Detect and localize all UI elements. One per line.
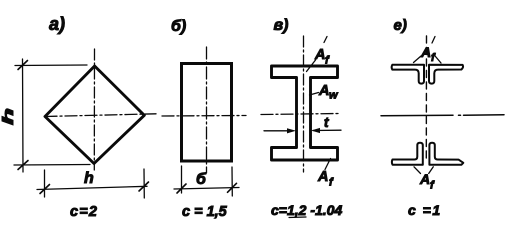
dimension h horizontal: left extension xyxy=(44,170,46,197)
svg-text:c=1,2 -1.04: c=1,2 -1.04 xyxy=(271,202,342,218)
svg-text:f: f xyxy=(329,177,334,189)
svg-text:б): б) xyxy=(171,18,186,35)
svg-text:w: w xyxy=(329,90,339,102)
vertical dashed centerline е xyxy=(425,36,427,158)
label Af bottom: leader xyxy=(325,159,331,170)
label Af bottom: text xyxy=(317,169,334,189)
svg-text:A: A xyxy=(318,83,329,99)
svg-text:c=2: c=2 xyxy=(70,204,98,220)
caption underline under 1,2 xyxy=(289,216,306,219)
dimension h horizontal: right tick xyxy=(139,182,149,191)
label Af top: leader xyxy=(307,60,316,72)
svg-text:в): в) xyxy=(274,17,289,34)
dimension б: right tick xyxy=(228,183,237,192)
rectangle section б xyxy=(182,64,232,162)
svg-text:f: f xyxy=(430,180,435,192)
dimension б: left extension xyxy=(181,166,183,193)
t dimension: right arrow line xyxy=(313,129,341,131)
t dimension: left arrow line xyxy=(264,130,293,132)
dimension б: left tick xyxy=(177,184,186,193)
dimension h vertical: line xyxy=(22,59,25,172)
vertical centerline б xyxy=(206,47,208,173)
label Af top е: tick above xyxy=(432,37,435,44)
label Af top е: right leader xyxy=(436,57,442,64)
svg-text:h: h xyxy=(84,170,94,187)
horizontal centerline е xyxy=(381,115,504,116)
diamond section a xyxy=(45,66,144,164)
svg-text:A: A xyxy=(317,169,328,185)
label Af top е: text xyxy=(420,44,436,64)
dimension б: line xyxy=(174,188,239,190)
svg-text:б: б xyxy=(196,171,207,188)
dimension h vertical: bottom extension xyxy=(14,164,90,167)
svg-text:c = 1,5: c = 1,5 xyxy=(182,204,228,220)
svg-text:t: t xyxy=(324,115,329,130)
svg-text:е): е) xyxy=(394,17,407,34)
label Aw: text xyxy=(318,83,339,102)
svg-text:f: f xyxy=(431,52,436,64)
horizontal centerline в xyxy=(261,114,339,115)
bottom angles section е: left angle xyxy=(392,143,423,165)
vertical centerline a xyxy=(93,49,95,170)
dimension h vertical: top extension xyxy=(15,64,87,67)
dimension h vertical: bottom tick xyxy=(18,161,28,170)
label Af top: text xyxy=(314,47,330,67)
svg-text:h: h xyxy=(0,108,17,125)
horizontal centerline б xyxy=(162,115,246,118)
dimension б: right extension xyxy=(231,167,233,196)
svg-text:A: A xyxy=(420,44,431,60)
bottom angles section е: right angle xyxy=(429,143,463,165)
label Aw: leader xyxy=(310,93,319,96)
top angles section е: right angle xyxy=(429,65,463,84)
t dimension: right arrowhead xyxy=(311,128,320,133)
dimension h vertical: top tick xyxy=(18,61,28,70)
label Af bottom е: left leader xyxy=(414,167,421,174)
top angles section е: left angle xyxy=(392,65,424,84)
label Af bottom е: text xyxy=(419,171,435,192)
dimension h horizontal: left tick xyxy=(40,185,50,194)
vertical centerline в xyxy=(303,36,305,172)
svg-text:c =1: c =1 xyxy=(408,202,442,218)
svg-text:A: A xyxy=(419,171,430,187)
svg-text:A: A xyxy=(314,47,325,63)
I-beam section в xyxy=(272,66,338,160)
label Af bottom е: right leader xyxy=(429,167,434,174)
t dimension: left arrowhead xyxy=(287,128,296,133)
label Af top е: left leader xyxy=(414,56,422,63)
svg-text:a): a) xyxy=(49,14,65,34)
horizontal centerline a xyxy=(45,114,156,117)
label Af top: tick above xyxy=(324,37,327,43)
dimension h horizontal: right extension xyxy=(143,169,145,198)
dimension h horizontal: line xyxy=(37,186,147,189)
